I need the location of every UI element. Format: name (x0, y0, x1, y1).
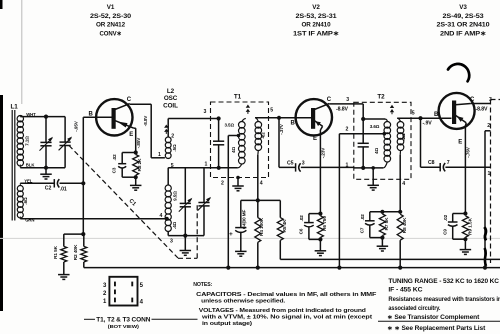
transformer T3 box edge (490, 100, 492, 264)
wire emitter (320, 126, 322, 130)
wire (219, 167, 238, 169)
svg-text:C3: C3 (112, 167, 117, 173)
wire (278, 118, 280, 168)
svg-text:5: 5 (270, 108, 273, 114)
node (398, 210, 402, 214)
svg-text:OR 2N412: OR 2N412 (96, 22, 126, 29)
wire (167, 168, 169, 185)
capacitor C3 (121, 153, 123, 164)
wire (167, 232, 169, 236)
ground (464, 239, 466, 249)
capacitor C7 (369, 212, 371, 221)
svg-text:3: 3 (170, 239, 173, 245)
resistor R7 (379, 214, 385, 236)
osc trimmer capacitor (203, 168, 205, 203)
gang line C1 (69, 146, 178, 259)
transistor V1 (96, 99, 132, 135)
svg-text:E: E (129, 132, 133, 138)
transistor V2 (296, 99, 332, 135)
connector T1 T2 T3 box (109, 277, 137, 306)
resistor R2 (81, 246, 87, 262)
svg-text:with a VTVM, ± 10%. No signal: with a VTVM, ± 10%. No signal in, vol at… (201, 315, 372, 321)
L1 primary winding (17, 116, 23, 122)
wire emitter (464, 123, 467, 126)
svg-text:R1 5K: R1 5K (53, 245, 59, 259)
svg-text:Resistances measured with tran: Resistances measured with transistors in (388, 296, 500, 303)
svg-text:2S-52, 2S-30: 2S-52, 2S-30 (90, 13, 132, 20)
svg-text:7: 7 (447, 160, 450, 166)
svg-text:4Ω: 4Ω (261, 132, 266, 138)
node (44, 115, 48, 119)
wire (122, 152, 136, 154)
node (463, 211, 467, 215)
resistor R1 (63, 234, 65, 246)
node (361, 117, 365, 121)
ground (381, 238, 383, 247)
svg-text:R9 1.5K: R9 1.5K (467, 217, 473, 235)
svg-text:R8 40K: R8 40K (402, 217, 408, 233)
svg-text:(BOT VIEW): (BOT VIEW) (108, 324, 140, 329)
resistor R4 (257, 200, 259, 217)
svg-text:V3: V3 (459, 4, 467, 11)
node pin1 (361, 166, 365, 170)
trimmer capacitor (64, 117, 66, 143)
ground (184, 236, 186, 251)
svg-text:5: 5 (412, 111, 415, 117)
T2 secondary (397, 122, 404, 129)
wire (453, 238, 466, 240)
node (134, 175, 138, 179)
svg-text:CONV∗: CONV∗ (100, 30, 122, 37)
svg-text:IF - 455 KC: IF - 455 KC (388, 286, 423, 293)
resistor R3 (133, 155, 139, 176)
svg-text:.02: .02 (443, 214, 448, 221)
wire pin4 (399, 155, 401, 212)
svg-text:-.23V: -.23V (321, 147, 326, 159)
node (183, 234, 187, 238)
svg-text:-8.8V: -8.8V (143, 115, 148, 127)
ground (319, 239, 321, 250)
wire (167, 119, 169, 138)
svg-text:E: E (458, 139, 462, 145)
svg-text:T1: T1 (234, 93, 242, 100)
node (318, 237, 322, 241)
wire (279, 166, 296, 168)
capacitor C8 (439, 163, 441, 171)
svg-text:2S-53, 2S-31: 2S-53, 2S-31 (296, 13, 338, 20)
wire (354, 167, 384, 169)
capacitor C4 (240, 200, 242, 227)
L2 lower winding (165, 185, 171, 191)
capacitor C6 (308, 214, 310, 223)
svg-text:T2: T2 (377, 93, 385, 100)
svg-text:1: 1 (158, 152, 161, 158)
transformer T2 box (354, 102, 411, 179)
node (398, 266, 402, 270)
L1 secondary winding (17, 186, 23, 192)
node (337, 266, 341, 270)
svg-text:∗ See Transistor Complement: ∗ See Transistor Complement (387, 314, 479, 321)
wire (255, 117, 311, 119)
supply rail upper (280, 258, 500, 260)
wire (370, 237, 383, 239)
T1 primary (239, 122, 246, 129)
svg-text:2ND IF AMP∗: 2ND IF AMP∗ (440, 30, 486, 37)
svg-text:3: 3 (204, 109, 207, 115)
svg-text:.02: .02 (299, 215, 304, 222)
wire pin2 (485, 130, 491, 132)
svg-text:4: 4 (260, 181, 263, 187)
ground (371, 166, 375, 170)
wire (219, 118, 242, 120)
wire pin2 (227, 136, 229, 268)
ground can (236, 176, 240, 180)
svg-text:4: 4 (402, 181, 405, 187)
svg-text:7.1Ω: 7.1Ω (25, 136, 30, 146)
svg-text:4: 4 (160, 213, 163, 219)
slug (246, 105, 250, 108)
svg-text:in output stage): in output stage) (202, 321, 252, 327)
svg-text:2: 2 (346, 127, 349, 133)
svg-text:.2Ω: .2Ω (401, 133, 406, 141)
svg-text:C4|30 MF: C4|30 MF (241, 210, 246, 230)
svg-text:-.9V: -.9V (423, 120, 433, 126)
transistor V3 (439, 93, 475, 129)
svg-text:V2: V2 (312, 4, 320, 11)
capacitor C5 (295, 163, 297, 171)
wire (354, 103, 363, 105)
wire (83, 116, 111, 118)
svg-text:3: 3 (346, 97, 349, 103)
svg-text:.01: .01 (60, 187, 67, 193)
svg-text:-.37V: -.37V (279, 123, 284, 135)
svg-text:L2: L2 (167, 88, 175, 95)
wire (82, 117, 84, 234)
svg-text:+: + (229, 231, 233, 238)
svg-text:-.95V: -.95V (74, 120, 79, 132)
slug (390, 105, 394, 108)
tuning capacitor C1b (184, 168, 186, 204)
wire (421, 166, 441, 168)
node (256, 266, 260, 270)
svg-text:E: E (313, 136, 317, 142)
svg-text:C8: C8 (428, 160, 435, 166)
svg-text:1ST IF AMP∗: 1ST IF AMP∗ (293, 30, 339, 37)
svg-text:3: 3 (302, 160, 305, 166)
svg-text:4Ω: 4Ω (374, 148, 379, 154)
svg-text:C2: C2 (45, 186, 52, 192)
tap (383, 132, 387, 136)
svg-text:R4 100K: R4 100K (259, 217, 265, 236)
svg-text:V1: V1 (107, 4, 115, 11)
ground (135, 177, 137, 185)
svg-text:1: 1 (346, 163, 349, 169)
wire (241, 199, 280, 201)
node pin4 (165, 217, 169, 221)
svg-text:4Ω: 4Ω (231, 147, 236, 153)
resistor R5 (279, 200, 281, 217)
svg-text:OSC: OSC (164, 95, 178, 102)
wire pin2 (338, 134, 340, 268)
node (483, 266, 487, 270)
node (81, 181, 85, 185)
svg-text:3.5Ω: 3.5Ω (225, 123, 235, 128)
node (256, 198, 260, 202)
svg-text:unless otherwise specified.: unless otherwise specified. (201, 299, 286, 305)
wire (329, 103, 354, 105)
border frame (0, 95, 3, 311)
node (277, 116, 281, 120)
svg-text:.02: .02 (360, 214, 365, 221)
ground (58, 274, 70, 276)
wire (150, 104, 152, 158)
wire (130, 103, 152, 105)
svg-text:.4Ω: .4Ω (172, 221, 177, 229)
svg-text:CAPACITORS - Decimal values in: CAPACITORS - Decimal values in MF, all o… (196, 292, 377, 298)
svg-text:L1: L1 (11, 104, 19, 111)
svg-text:1: 1 (205, 162, 208, 168)
transformer T1 box (211, 102, 269, 178)
svg-text:OR 2N410: OR 2N410 (302, 22, 332, 29)
wire (60, 182, 84, 184)
ground (235, 250, 247, 252)
wire (471, 103, 491, 105)
wire (370, 211, 400, 213)
svg-text:VOLTAGES - Measured from point: VOLTAGES - Measured from point indicated… (199, 308, 367, 314)
svg-text:9.5Ω: 9.5Ω (173, 191, 178, 201)
wire (301, 166, 354, 168)
wire (420, 118, 422, 167)
node (81, 232, 85, 236)
svg-text:2S-31 OR 2N410: 2S-31 OR 2N410 (437, 22, 491, 29)
wire pin4 (257, 155, 259, 200)
slug (164, 125, 168, 128)
wire (64, 233, 84, 235)
svg-text:2: 2 (171, 134, 174, 140)
svg-text:-.85V: -.85V (136, 137, 141, 149)
T2 primary (384, 122, 391, 129)
node (217, 116, 221, 120)
wire (309, 213, 321, 215)
T1 secondary (255, 122, 262, 129)
svg-text:associated circuitry.: associated circuitry. (388, 305, 440, 312)
svg-text:NOTES:: NOTES: (193, 282, 212, 288)
node (380, 210, 384, 214)
node (380, 236, 384, 240)
ink smudge (484, 227, 486, 241)
svg-text:∗ ∗ See Replacement Parts List: ∗ ∗ See Replacement Parts List (387, 325, 485, 332)
svg-text:R5 4K: R5 4K (282, 219, 288, 233)
wire (363, 118, 385, 120)
supply rail lower (84, 267, 500, 269)
node (44, 166, 48, 170)
resistor R8 (397, 214, 403, 240)
svg-text:C7: C7 (360, 227, 365, 233)
svg-text:R3 2K: R3 2K (137, 158, 143, 172)
wire (309, 238, 321, 240)
svg-text:3.6Ω: 3.6Ω (370, 124, 380, 129)
node pin1 (217, 166, 221, 170)
svg-text:C6: C6 (299, 228, 304, 234)
svg-text:BLK: BLK (26, 163, 36, 168)
svg-text:-.76V: -.76V (465, 146, 470, 158)
svg-text:C5: C5 (287, 160, 294, 166)
node (463, 237, 467, 241)
svg-text:2: 2 (487, 123, 490, 129)
node (418, 116, 422, 120)
svg-text:2: 2 (221, 181, 224, 187)
svg-text:-8.8V: -8.8V (476, 106, 489, 112)
svg-text:R6 750: R6 750 (322, 216, 328, 231)
resistor R9 (462, 216, 468, 237)
svg-text:.6Ω: .6Ω (23, 197, 28, 205)
tap (237, 134, 241, 138)
svg-text:TUNING RANGE - 532 KC to 1620: TUNING RANGE - 532 KC to 1620 KC (388, 278, 499, 285)
node (134, 150, 138, 154)
wire GRN-AVC (20, 218, 167, 220)
svg-text:R2 40K: R2 40K (73, 244, 79, 260)
tuning capacitor C1a (45, 117, 47, 143)
wire emitter (134, 127, 136, 129)
resistor R6 (317, 216, 323, 238)
antenna rod L1 (11, 110, 13, 221)
L2 upper winding (165, 137, 171, 143)
capacitor C2 (53, 179, 55, 187)
svg-text:.5Ω: .5Ω (172, 144, 177, 152)
svg-text:C9: C9 (442, 229, 447, 235)
svg-text:COIL: COIL (163, 102, 178, 109)
node (318, 212, 322, 216)
svg-text:-8.8V: -8.8V (336, 106, 349, 112)
svg-text:2S-49, 2S-53: 2S-49, 2S-53 (443, 13, 485, 20)
wire (445, 166, 490, 168)
wire (20, 167, 65, 169)
capacitor C9 (452, 214, 454, 223)
svg-text:.02: .02 (112, 154, 117, 161)
ground (45, 168, 47, 175)
wire (151, 157, 165, 159)
svg-text:R7 5K: R7 5K (384, 217, 390, 231)
wire (122, 176, 136, 178)
node (226, 266, 230, 270)
wire (20, 116, 65, 118)
capacitor T1 (218, 119, 220, 142)
capacitor T2 (362, 119, 364, 143)
wire (20, 182, 54, 184)
wire (453, 213, 466, 215)
wire (397, 117, 451, 119)
svg-text:T1, T2 & T3 CONN: T1, T2 & T3 CONN (96, 317, 150, 323)
